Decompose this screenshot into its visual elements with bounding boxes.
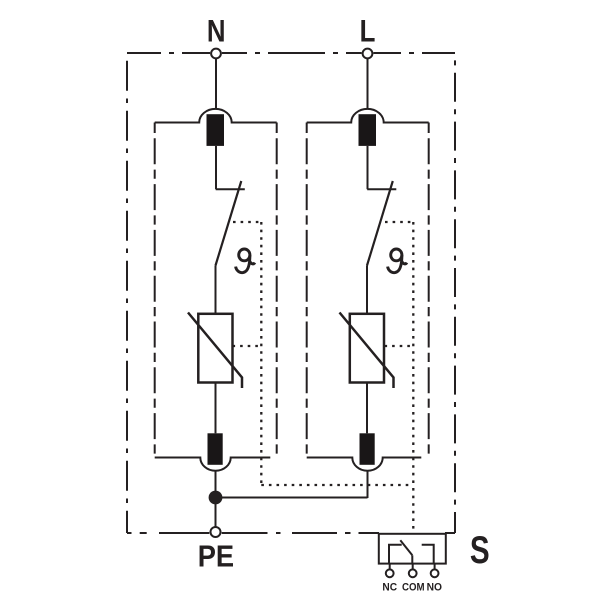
varistor body [198,314,232,383]
svg-text:S: S [470,529,490,572]
wire contact to disconnector [367,146,369,189]
outer dash-dot enclosure border, top edge [127,52,455,54]
NC terminal [386,569,394,577]
thermal disconnector blade [216,181,242,266]
PE bus wire to right branch [216,497,368,499]
wire disconnector to varistor [215,266,217,315]
terminal L [363,49,373,59]
NO terminal lead [434,564,436,569]
bottom contact black rectangle [360,433,375,465]
thermal sensing dotted link (left) [233,222,262,485]
thermal disconnector blade [367,181,393,266]
wire varistor to bottom contact [215,383,217,434]
terminal N [211,49,221,59]
wire varistor to bottom contact [366,383,368,434]
NO terminal [431,569,439,577]
svg-text:NO: NO [427,581,442,594]
wire node to PE terminal [215,498,217,528]
contact S box [379,534,446,564]
wire bottom contact down to PE bus [367,470,369,498]
wire disconnector to varistor [366,266,368,315]
outer dash-dot enclosure border, left edge [126,53,128,533]
module box left edge (dashed) [154,123,156,454]
thermal sensing dotted link (right) [385,222,414,533]
svg-text:NC: NC [382,581,397,594]
svg-text:N: N [207,14,226,49]
module box right edge (dashed) [276,123,278,454]
COM terminal [409,569,417,577]
module box left edge (dashed) [306,123,308,454]
thermal symbol theta (right) [388,249,407,273]
bottom contact black rectangle [208,433,223,465]
varistor diagonal stroke [340,313,394,389]
dotted signalling bus to contact S [261,484,413,486]
base socket top line with plug arc [155,109,277,123]
thermal symbol theta (left) [236,249,255,273]
svg-text:COM: COM [402,581,425,594]
contact COM stub [411,555,413,564]
contact NC path [389,545,402,564]
base socket top line with plug arc [307,109,429,123]
varistor body [350,314,384,383]
svg-text:PE: PE [198,540,234,574]
wire bottom contact to PE node [215,470,217,497]
wire L terminal to top contact [367,59,369,110]
outer dash-dot enclosure border, bottom edge [127,532,455,534]
terminal PE [211,527,221,537]
base socket bottom line with plug cup [155,458,271,471]
junction node [209,491,223,505]
COM terminal lead [412,564,414,569]
contact blade [400,540,412,555]
svg-text:L: L [360,14,376,49]
varistor diagonal stroke [188,313,242,389]
top contact black rectangle [359,114,377,146]
wire N terminal to top contact [215,59,217,110]
thermal disconnector fixed contact [367,188,396,190]
outer dash-dot enclosure border, right edge [454,53,456,533]
module box right edge (dashed) [428,123,430,454]
NC terminal lead [389,564,391,569]
base socket bottom line with plug cup [307,458,422,471]
contact NO path [422,545,434,564]
top contact black rectangle [207,114,225,146]
wire contact to disconnector [215,146,217,189]
thermal disconnector fixed contact [216,188,245,190]
